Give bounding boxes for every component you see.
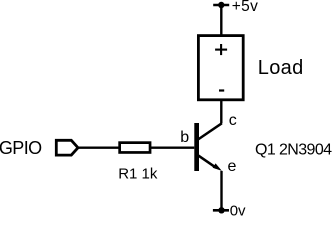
transistor Q1 base bar [194, 123, 199, 171]
wire gpio pin to resistor [78, 147, 119, 149]
wire emitter to 0v [220, 171, 222, 210]
wire resistor to base [151, 147, 194, 149]
svg-text:e: e [228, 158, 237, 175]
0v ground terminal [213, 207, 229, 213]
transistor Q1 collector diagonal [198, 123, 222, 139]
svg-text:c: c [229, 112, 237, 129]
wire load to collector [220, 100, 222, 124]
svg-text:0v: 0v [230, 202, 246, 216]
minus sign in load [219, 89, 224, 91]
load box [198, 36, 243, 100]
svg-text:GPIO: GPIO [0, 138, 42, 158]
plus sign in load [215, 44, 227, 55]
svg-text:Load: Load [258, 57, 304, 79]
+5v supply terminal [213, 2, 229, 8]
transistor Q1 emitter diagonal with arrow [198, 155, 222, 171]
wire +5v to load [220, 5, 222, 35]
svg-text:b: b [180, 129, 189, 146]
GPIO connector pin [56, 140, 78, 155]
svg-text:R1 1k: R1 1k [118, 166, 158, 183]
resistor R1 [120, 143, 150, 153]
svg-text:+5v: +5v [232, 0, 259, 15]
svg-text:Q1 2N3904: Q1 2N3904 [255, 141, 332, 158]
